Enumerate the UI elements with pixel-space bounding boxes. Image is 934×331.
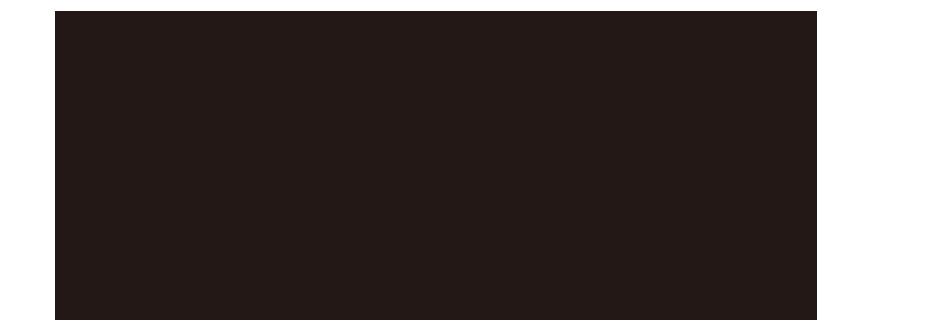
dark panel <box>55 11 817 320</box>
